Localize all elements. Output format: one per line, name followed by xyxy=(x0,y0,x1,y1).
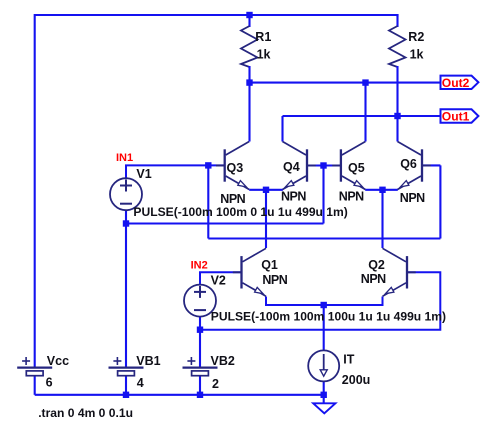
svg-text:2: 2 xyxy=(212,377,219,391)
svg-text:IN1: IN1 xyxy=(116,152,133,164)
wire Q4Q5 base drop xyxy=(322,166,324,224)
wire tail to IT xyxy=(323,305,325,351)
wire ground stub xyxy=(323,395,325,404)
resistor R1 xyxy=(241,14,258,83)
wire Q5-Q6 emitter tie xyxy=(365,189,398,191)
wire Q3-Q4 emitter tie xyxy=(249,189,283,191)
node V2-VB2 junction xyxy=(197,327,203,333)
voltage source V2 xyxy=(184,285,216,317)
svg-text:Q6: Q6 xyxy=(400,157,417,171)
wire Q2 base loop to bias xyxy=(200,272,440,329)
svg-text:.tran 0 4m 0 0.1u: .tran 0 4m 0 0.1u xyxy=(38,406,133,420)
wire Q4 base lead xyxy=(307,164,324,166)
svg-text:Q5: Q5 xyxy=(348,161,365,175)
wire VB1 riser xyxy=(125,224,127,368)
svg-text:NPN: NPN xyxy=(262,273,287,287)
label Q3 xyxy=(227,161,244,175)
value V1 PULSE xyxy=(133,205,347,219)
value Q1 NPN xyxy=(262,273,287,287)
current source IT xyxy=(308,350,339,381)
value VB1 4 xyxy=(137,376,144,390)
svg-text:200u: 200u xyxy=(342,373,371,387)
wire Out2 net from R1 to flag xyxy=(250,82,441,84)
svg-text:1k: 1k xyxy=(257,48,271,62)
svg-text:Q4: Q4 xyxy=(283,160,300,174)
label R1 xyxy=(255,30,271,44)
svg-text:VB2: VB2 xyxy=(211,354,235,368)
wire Q3Q4 emitters to Q1 collector xyxy=(265,190,267,248)
label V1 xyxy=(136,167,151,181)
voltage source V1 xyxy=(110,178,142,210)
svg-text:R2: R2 xyxy=(408,30,424,44)
node R1 top junction xyxy=(246,12,252,18)
resistor R2 xyxy=(389,14,406,84)
wire Q4 collector riser xyxy=(281,116,283,142)
svg-text:NPN: NPN xyxy=(361,272,386,286)
label V2 xyxy=(211,274,226,288)
wire R2 bottom to Out1 node xyxy=(396,84,398,116)
wire V1 top to Q3 base xyxy=(126,165,225,179)
wire V1 bottom xyxy=(125,210,127,223)
value R1 1k xyxy=(257,48,271,62)
svg-text:Q2: Q2 xyxy=(368,258,385,272)
wire Out1 net xyxy=(283,115,441,117)
svg-text:Q3: Q3 xyxy=(227,161,244,175)
svg-text:VB1: VB1 xyxy=(136,354,160,368)
value Q4 NPN xyxy=(281,189,306,203)
svg-text:Out1: Out1 xyxy=(442,110,470,124)
wire Q1 emitter drop xyxy=(266,297,383,306)
node Q5 collector on Out2 xyxy=(362,79,368,85)
label R2 xyxy=(408,30,424,44)
wire R2 top drop xyxy=(396,14,398,17)
node V1-VB1 junction xyxy=(123,220,129,226)
node label IN1 xyxy=(116,152,133,164)
value VB2 2 xyxy=(212,377,219,391)
node Q5-Q6 emitter junction xyxy=(379,187,385,193)
wire V2 bottom xyxy=(199,317,201,330)
svg-text:R1: R1 xyxy=(255,30,271,44)
node Out1 flag xyxy=(441,109,479,123)
transistor Q1 xyxy=(233,248,266,296)
transistor Q2 xyxy=(383,248,416,296)
transistor Q3 xyxy=(216,142,249,190)
label Q4 xyxy=(283,160,300,174)
wire IN1 cross-couple horizontal xyxy=(208,237,440,239)
svg-text:NPN: NPN xyxy=(220,192,245,206)
transistor Q5 xyxy=(332,142,365,190)
svg-text:Out2: Out2 xyxy=(442,76,470,90)
svg-text:PULSE(-100m 100m 0 1u 1u 499u: PULSE(-100m 100m 0 1u 1u 499u 1m) xyxy=(133,205,347,219)
svg-text:IT: IT xyxy=(343,352,354,366)
ground xyxy=(313,403,335,413)
svg-text:NPN: NPN xyxy=(281,189,306,203)
label Vcc xyxy=(47,354,69,368)
value Q3 NPN xyxy=(220,192,245,206)
wire Q6 collector riser xyxy=(396,116,398,142)
node R1 bottom junction xyxy=(246,79,252,85)
label Q1 xyxy=(261,258,278,272)
wire ground rail xyxy=(35,394,324,396)
wire Q5 collector riser xyxy=(364,83,366,142)
wire Vcc bottom lead xyxy=(34,376,36,395)
node VB2 ground junction xyxy=(197,392,203,398)
svg-text:1k: 1k xyxy=(410,48,424,62)
wire VB2 riser xyxy=(199,330,201,368)
directive .tran xyxy=(38,406,133,420)
label Q5 xyxy=(348,161,365,175)
wire bias rail to V1 minus xyxy=(126,222,324,224)
value Vcc 6 xyxy=(46,375,53,389)
svg-text:PULSE(-100m 100m 100u 1u 1u 49: PULSE(-100m 100m 100u 1u 1u 499u 1m) xyxy=(211,309,446,323)
value Q2 NPN xyxy=(361,272,386,286)
svg-text:V1: V1 xyxy=(136,167,151,181)
label VB2 xyxy=(211,354,235,368)
node Out2 flag xyxy=(441,76,479,90)
svg-text:NPN: NPN xyxy=(400,191,425,205)
node VB1 ground junction xyxy=(123,392,129,398)
value R2 1k xyxy=(410,48,424,62)
node R2-Q6 junction on Out1 xyxy=(394,113,400,119)
node Q3-Q4 emitter junction xyxy=(263,187,269,193)
wire V2 top to Q1 base xyxy=(200,272,242,285)
svg-text:6: 6 xyxy=(46,375,53,389)
label Q2 xyxy=(368,258,385,272)
node label IN2 xyxy=(191,259,208,271)
transistor Q6 xyxy=(398,142,431,190)
wire Q5Q6 emitters to Q2 collector xyxy=(381,190,383,248)
value Q5 NPN xyxy=(339,190,364,204)
wire Q6 base lead xyxy=(422,164,440,166)
battery VB2 xyxy=(183,357,218,376)
node IT ground junction xyxy=(321,392,327,398)
wire VB2 bottom lead xyxy=(199,376,201,396)
svg-text:4: 4 xyxy=(137,376,144,390)
svg-text:Q1: Q1 xyxy=(261,258,278,272)
value Q6 NPN xyxy=(400,191,425,205)
battery Vcc xyxy=(17,357,52,376)
wire Q5 base lead xyxy=(324,164,341,166)
value IT 200u xyxy=(342,373,371,387)
svg-text:NPN: NPN xyxy=(339,190,364,204)
value V2 PULSE xyxy=(211,309,446,323)
wire left Vcc rail xyxy=(34,14,36,368)
node tail junction xyxy=(321,302,327,308)
wire VB1 bottom lead xyxy=(125,376,127,396)
node Q4-Q5 base junction xyxy=(320,162,326,168)
transistor Q4 xyxy=(283,142,316,190)
battery VB1 xyxy=(109,357,144,376)
svg-text:Vcc: Vcc xyxy=(47,354,69,368)
svg-text:IN2: IN2 xyxy=(191,259,208,271)
wire IN1 riser to Q6 base xyxy=(439,165,441,238)
wire IN1 vertical drop xyxy=(207,165,209,238)
wire Q3 collector xyxy=(248,83,250,142)
svg-text:V2: V2 xyxy=(211,274,226,288)
label IT xyxy=(343,352,354,366)
wire IT bottom lead xyxy=(323,381,325,394)
wire top supply rail xyxy=(35,14,398,16)
node IN1 junction at Q3 base xyxy=(205,162,211,168)
label Q6 xyxy=(400,157,417,171)
label VB1 xyxy=(136,354,160,368)
